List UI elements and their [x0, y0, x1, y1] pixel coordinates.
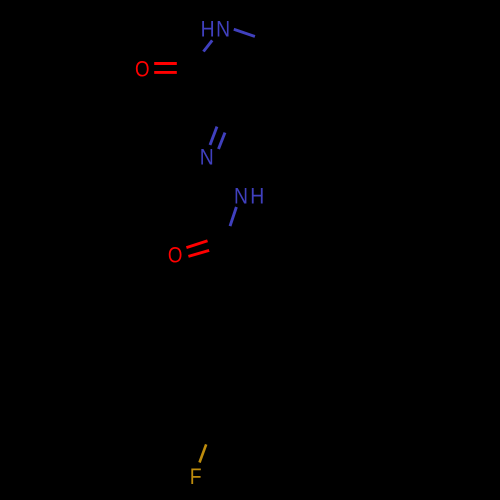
bond C4'-F (gold half near F)	[200, 444, 207, 462]
bond C3=N hydrazone double (black half near C3, invisible on black)	[217, 110, 232, 133]
svg-text:O: O	[135, 58, 150, 82]
svg-text:H: H	[201, 17, 215, 41]
4-fluorophenyl ring C1'-C2'-C3'-C4'-C5'-C6' (black, invisible on black)	[182, 333, 271, 431]
bond C3=N hydrazone double (blue half near N, main line)	[210, 127, 217, 146]
bond N1-C2 (blue half near N1)	[203, 40, 212, 51]
bond C4'-F (black half near C4', invisible on black)	[206, 431, 211, 444]
bond C2-C3 (black, invisible on black)	[197, 68, 224, 110]
bond C=O amide double (black half near carbonyl C, invisible on black)	[208, 235, 228, 251]
bond C2=O double bond (red half near O, upper line)	[154, 62, 177, 65]
bond NH-C(=O) amide (black half near carbonyl C, invisible on black)	[225, 226, 230, 241]
bond C2=O double bond (black half near C2, invisible on black)	[177, 64, 196, 73]
svg-text:F: F	[190, 465, 202, 489]
bond C=O amide double (red half near O, lower line)	[188, 250, 209, 256]
svg-text:O: O	[168, 244, 183, 268]
bond N1-C7a (black half near C7a, invisible on black)	[255, 37, 271, 43]
bond C=O amide double (red half near O, upper line)	[186, 241, 207, 248]
bond C3-C3a (black, invisible on black)	[224, 90, 267, 110]
svg-text:H: H	[250, 184, 264, 208]
svg-text:N: N	[200, 145, 214, 169]
benzo ring of oxindole C3a-C4-C5-C6-C7-C7a (black, invisible on black)	[267, 19, 346, 107]
bond C2=O double bond (red half near O, lower line)	[154, 71, 177, 74]
svg-text:N: N	[216, 17, 230, 41]
svg-text:N: N	[234, 184, 248, 208]
bond CH2-C1' (black, invisible on black)	[237, 286, 241, 333]
bond N1-C7a (blue half near N1)	[234, 29, 255, 36]
bond C3=N hydrazone double (blue half near N, inner line)	[219, 133, 226, 150]
bond C(=O)-CH2 (black, invisible on black)	[225, 241, 237, 286]
bond NH-C(=O) amide (blue half near NH)	[230, 207, 236, 226]
bond N1-C2 (black half near C2, invisible on black)	[197, 52, 203, 64]
